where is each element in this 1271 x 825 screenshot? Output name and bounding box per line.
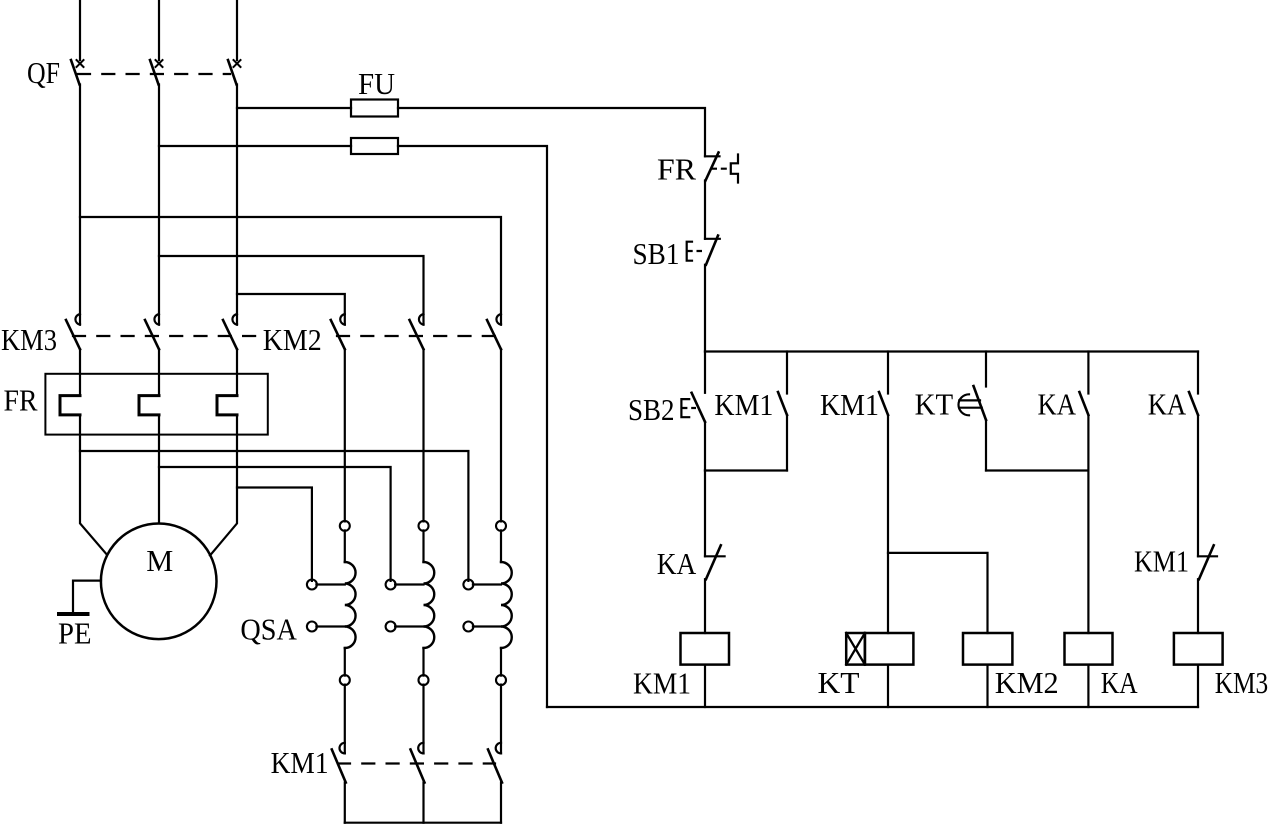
fuse FU2 [351,138,398,154]
heater element FR phase 2 [139,396,159,415]
ground PE [57,581,101,614]
pushbutton SB1 (NC stop) [687,236,720,265]
svg-text:SB2: SB2 [628,392,675,427]
fuse FU1 [351,100,398,117]
wire L2 to motor [158,415,160,524]
svg-text:KA: KA [1148,387,1187,422]
wire phase L2 incoming [158,0,160,60]
svg-text:KM1: KM1 [633,666,691,701]
wire motor L3 to tap 1 [237,488,312,581]
wire phase L3 incoming [236,0,238,60]
contactor KM3 main pole 3 [223,314,237,349]
wire phase L3 to KM3 [236,85,238,325]
wire L3 branch to KM2 pole 1 [237,294,345,325]
svg-text:QSA: QSA [240,612,297,647]
wire KA 2 down [1197,415,1199,556]
wire KM1 pole 1 to star point [344,783,346,823]
contact KA (NC interlock) [705,545,725,579]
wire bus to KA contact [1087,352,1089,394]
coil KA [1065,633,1113,665]
wire bus to KM1 aux 2 [887,352,889,394]
autotransformer winding 2 [419,349,435,753]
contactor KM2 main pole 1 [331,314,345,349]
wire L2 branch to KM2 pole 2 [159,256,424,325]
wire phase L2 to KM3 [158,85,160,325]
control bottom bus [547,706,1198,708]
wire coil KT to bottom bus [887,665,889,707]
wire bus to SB2 [704,352,706,393]
wire KA contact down [1087,415,1089,633]
star point bus [345,822,501,824]
coil KM1 [681,633,730,665]
wire KM1 aux down [786,415,788,471]
tap terminals winding 2 [386,580,424,632]
wire phase L1 to KM3 [79,85,81,325]
contact KA (NO) [1079,392,1088,415]
wire KM3 pole3 to heater [236,349,238,395]
svg-text:KM2: KM2 [995,665,1059,700]
autotransformer winding 1 [340,349,356,753]
wire L1 branch to KM2 pole 3 [80,217,501,325]
wire SB1 to bus [704,265,706,352]
wire bus to KA contact 2 [1197,352,1199,394]
contactor KM3 main pole 1 [66,314,80,349]
thermal relay contact FR (NC) [705,153,738,183]
contact KT (delayed close NO) [959,386,987,420]
breaker QF pole 1 [71,60,84,85]
coil KT with delay box [846,633,913,665]
svg-text:KA: KA [657,546,697,581]
wire coil KM1 to bottom bus [704,665,706,707]
contactor KM2 main pole 3 [487,314,501,349]
autotransformer winding 3 [496,349,512,753]
contact KM1 (NC interlock) [1198,545,1217,579]
wire L1 to motor [80,415,106,554]
wire KM3 pole1 to heater [79,349,81,395]
breaker QF pole 3 [228,60,241,85]
svg-text:KM3: KM3 [1215,665,1269,700]
wire fuse FU1 to control rail [398,108,705,156]
breaker QF pole 2 [150,60,163,85]
KM3 linkage dashed [73,335,258,337]
wire coil KM2 to bottom bus [986,665,988,707]
svg-text:KM1: KM1 [820,387,879,422]
svg-text:KM2: KM2 [263,322,322,357]
contactor KM3 main pole 2 [145,314,159,349]
QF linkage dashed [78,73,230,75]
wire SB2/KM1 rejoin [705,469,787,471]
wire coil KA to bottom bus [1087,665,1089,707]
wire KT contact down [985,420,987,471]
wire KM3 pole2 to heater [158,349,160,395]
wire motor L2 to tap 2 [159,467,391,581]
wire bus to KT contact [985,352,987,387]
coil KM2 [963,633,1012,665]
thermal relay FR box [45,374,267,435]
contactor KM1 main pole 1 [332,743,346,783]
wire fuse FU2 to bottom control rail [398,146,547,707]
wire motor L1 to tap 3 [80,451,468,581]
wire KM1 pole 2 to star point [422,783,424,823]
svg-text:KT: KT [915,387,954,422]
heater element FR phase 3 [217,396,237,415]
tap terminals winding 1 [307,580,345,632]
svg-text:KM1: KM1 [271,745,329,780]
svg-text:KM3: KM3 [1,322,57,357]
svg-text:KM1: KM1 [1134,544,1189,579]
svg-text:PE: PE [58,616,92,651]
contactor KM1 main pole 3 [488,743,502,783]
wire KM1 pole 3 to star point [500,783,502,823]
heater element FR phase 1 [60,396,80,415]
contactor KM2 main pole 2 [410,314,424,349]
svg-text:M: M [146,543,173,578]
wire phase L1 incoming [79,0,81,60]
wire KT/KA rejoin [986,469,1088,471]
wire L3 to motor [210,415,237,556]
wire branch to coil KM2 [888,553,988,633]
motor M [101,524,217,640]
coil KM3 [1174,633,1223,665]
tap terminals winding 3 [463,580,501,632]
wire L2 tap to fuse FU2 [159,145,351,147]
wire KM1 aux 2 to coil KT [887,415,889,633]
svg-text:SB1: SB1 [633,236,680,271]
svg-text:FU: FU [358,66,395,101]
wire FR to SB1 [704,181,706,239]
wire KA NC to coil KM1 [704,579,706,633]
pushbutton SB2 (NO start) [681,393,705,422]
wire bus to KM1 aux contact [786,352,788,394]
wire L3 tap to fuse FU1 [237,107,351,109]
KM1 linkage dashed [338,762,495,764]
contact KM1 aux 2 (NO) [879,392,888,415]
svg-text:FR: FR [657,152,696,187]
control top bus [705,350,1198,352]
svg-text:KT: KT [818,665,860,700]
wire KM1 NC to coil KM3 [1197,579,1199,633]
wire rail to KA NC [704,471,706,557]
contactor KM1 main pole 2 [411,743,425,783]
KM2 linkage dashed [337,335,495,337]
svg-text:KA: KA [1038,387,1077,422]
wire SB2 down [704,422,706,471]
svg-text:FR: FR [4,383,38,418]
svg-text:QF: QF [27,55,60,90]
svg-text:KA: KA [1101,665,1139,700]
contact KM1 aux (NO self-hold) [778,392,787,415]
svg-text:KM1: KM1 [714,387,773,422]
contact KA 2 (NO) [1189,392,1198,415]
wire coil KM3 to bottom bus [1197,665,1199,707]
